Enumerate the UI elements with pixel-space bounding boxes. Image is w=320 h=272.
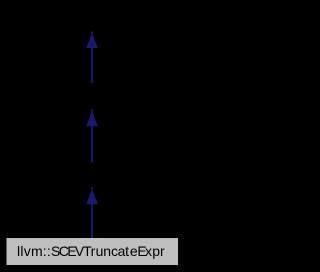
svg-text:llvm::SCEVTruncateExpr: llvm::SCEVTruncateExpr bbox=[17, 243, 165, 259]
